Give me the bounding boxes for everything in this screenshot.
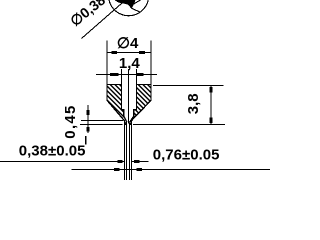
label 0,45 (rotated) (62, 104, 79, 138)
tube outer wall right (131, 121, 133, 180)
arrow 0,38 left (pointing right at tube) (118, 160, 123, 163)
svg-text:0,45: 0,45 (62, 104, 79, 138)
svg-text:∅4: ∅4 (117, 35, 139, 52)
arrow dia4 right (139, 51, 145, 54)
extension line outer left wall above body (106, 41, 108, 85)
dim line 1,4 (96, 74, 157, 76)
tip outline stroke upper inside detail circle (134, 0, 141, 4)
hatched wall left (107, 85, 127, 125)
arrow dia4 left (111, 51, 117, 54)
tip face edge left (125, 123, 128, 125)
arrow 3,8 top (210, 87, 213, 93)
arrow lower left (pointing right) (114, 168, 120, 171)
extension line bore left above body (121, 69, 123, 85)
body outline right (130, 85, 151, 123)
arrow 0,45 upper (pointing down) (87, 110, 90, 115)
dim line 0,45 vertical (87, 105, 89, 133)
extension line top right for 3,8 (153, 85, 224, 87)
tube bore wall left (126, 122, 128, 180)
arrow 1,4 right (outside, pointing left) (137, 73, 144, 76)
tube bore wall right (129, 122, 131, 180)
tip section blob (magnified tip walls) inside detail circle (115, 0, 136, 9)
tip face edge right (130, 123, 132, 125)
svg-text:3,8: 3,8 (185, 93, 202, 114)
hatched wall right (130, 85, 151, 125)
arrow 3,8 bottom (210, 118, 213, 124)
dim line 0,38 left segment (0, 161, 124, 163)
extension line bottom right for 3,8 (133, 124, 225, 126)
extension line upper for 0,45 (81, 120, 123, 122)
dim line lower (0,76) across tube (72, 169, 271, 171)
extension line lower for 0,45 (80, 124, 123, 126)
arrow 0,76 right (pointing left at tube) (134, 160, 140, 163)
label dia 0,38 (rotated along leader) (68, 0, 109, 30)
label 3,8 (rotated) (185, 93, 202, 114)
center axis line (128, 69, 130, 124)
extension line bore right above body (136, 69, 138, 85)
dim line 3,8 (210, 86, 212, 125)
dim line dia4 (107, 52, 151, 54)
arrow lower right (pointing left) (137, 168, 143, 171)
tip outline stroke lower inside detail circle (132, 8, 140, 12)
leader line for diameter 0,38 label (82, 0, 126, 39)
arrow 0,45 lower (pointing up) (87, 127, 90, 131)
tube outer wall left (124, 121, 126, 180)
svg-text:0,38±0.05: 0,38±0.05 (19, 143, 86, 160)
svg-text:1,4: 1,4 (119, 55, 141, 72)
arrow 1,4 left (outside, pointing right) (110, 73, 118, 76)
dim line 0,38 right segment (132, 161, 149, 163)
leader tick below 0,45 dim (85, 136, 87, 145)
extension line outer right wall above body (150, 41, 152, 85)
svg-text:0,76±0.05: 0,76±0.05 (153, 146, 220, 163)
body outline left (107, 85, 127, 123)
detail circle (109, 0, 148, 16)
